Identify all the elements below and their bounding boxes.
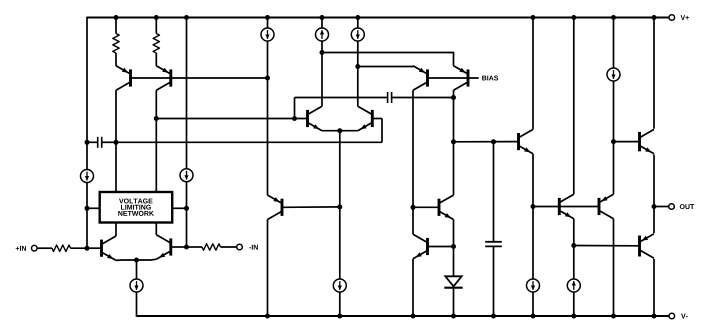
- wire: [87, 207, 100, 209]
- node: [652, 314, 657, 319]
- V+ rail wire: [87, 17, 669, 19]
- wire: [339, 292, 341, 316]
- wire: [339, 131, 341, 207]
- wire: [321, 18, 323, 29]
- capacitor C2: [388, 92, 454, 103]
- transistor Q2: [156, 66, 171, 90]
- node: [611, 314, 616, 319]
- wire: [137, 258, 157, 261]
- node: [355, 64, 360, 69]
- wire: [283, 206, 340, 208]
- wire: [533, 206, 598, 208]
- node: [85, 206, 90, 211]
- wire: [574, 245, 638, 247]
- transistor Q10: [439, 195, 454, 219]
- wire: [267, 78, 269, 195]
- node: [611, 15, 616, 20]
- wire: [653, 259, 655, 316]
- wire: [86, 183, 88, 249]
- node: [652, 204, 657, 209]
- node: [292, 116, 297, 121]
- node: [571, 314, 576, 319]
- wire: [613, 18, 615, 69]
- wire: [493, 142, 495, 242]
- transistor Q12: [519, 129, 534, 153]
- node: [154, 116, 159, 121]
- wire: [412, 259, 414, 316]
- transistor Q1: [116, 66, 131, 90]
- transistor Q9: [413, 66, 428, 90]
- resistor R2: [153, 18, 159, 66]
- current source I10: [607, 68, 620, 81]
- node: [611, 139, 616, 144]
- wire: [573, 219, 575, 279]
- transistor Q15: [640, 129, 655, 153]
- node: [184, 206, 189, 211]
- transistor Q14: [599, 194, 614, 218]
- node: [85, 140, 90, 145]
- wire: [412, 90, 414, 234]
- +IN terminal: [16, 245, 37, 251]
- node: [411, 314, 416, 319]
- wire: [453, 220, 455, 247]
- node: [531, 204, 536, 209]
- capacitor C1: [87, 137, 116, 148]
- wire: [86, 142, 88, 169]
- transistor Q5: [268, 195, 283, 219]
- wire: [614, 141, 639, 143]
- current source I1: [81, 170, 94, 183]
- node: [491, 314, 496, 319]
- node: [491, 139, 496, 144]
- wire: [172, 207, 186, 209]
- wire: [573, 18, 575, 195]
- wire: [116, 259, 136, 261]
- transistor Q8: [454, 66, 469, 90]
- transistor Q16: [640, 234, 655, 258]
- voltage limiting network: [100, 192, 173, 223]
- wire: [573, 292, 575, 316]
- wire: [136, 292, 138, 317]
- node: [652, 15, 657, 20]
- wire: [653, 155, 655, 207]
- wire: [357, 41, 359, 106]
- node: [184, 15, 189, 20]
- transistor Q7: [358, 106, 373, 130]
- wire: [653, 18, 655, 129]
- node: [320, 50, 325, 55]
- current source I8: [527, 279, 540, 292]
- node: [320, 15, 325, 20]
- node: [571, 243, 576, 248]
- wire: [267, 18, 269, 29]
- node: [451, 95, 456, 100]
- node: [114, 140, 119, 145]
- node: [265, 76, 270, 81]
- -IN terminal: [237, 244, 258, 250]
- resistor R3: [37, 245, 87, 251]
- wire: [171, 246, 187, 248]
- node: [85, 246, 90, 251]
- transistor Q4: [156, 235, 171, 259]
- current source I5: [333, 279, 346, 292]
- node: [531, 314, 536, 319]
- wire: [454, 141, 518, 143]
- wire: [428, 77, 479, 79]
- wire: [653, 207, 655, 234]
- current source I3: [130, 279, 143, 292]
- node: [531, 15, 536, 20]
- V+ terminal: [669, 15, 689, 21]
- diode D1: [444, 276, 462, 316]
- current source I6: [316, 28, 329, 41]
- resistor R4: [187, 244, 237, 250]
- transistor Q6: [308, 106, 323, 130]
- node: [184, 245, 189, 250]
- wire: [156, 118, 306, 120]
- wire: [358, 65, 413, 68]
- transistor Q13: [559, 194, 574, 218]
- wire: [87, 247, 101, 249]
- node: [134, 258, 139, 263]
- wire: [429, 246, 454, 248]
- wire: [613, 219, 615, 316]
- wire: [453, 247, 455, 277]
- current source I4: [261, 28, 274, 41]
- wire: [294, 98, 296, 119]
- wire: [86, 17, 88, 143]
- wire: [131, 77, 268, 79]
- node: [355, 15, 360, 20]
- node: [265, 314, 270, 319]
- wire: [532, 292, 534, 316]
- wire: [321, 41, 323, 106]
- wire: [322, 53, 454, 66]
- wire: [136, 260, 138, 279]
- node: [337, 204, 342, 209]
- wire: [322, 130, 358, 132]
- wire: [532, 18, 534, 130]
- wire: [186, 18, 188, 169]
- node: [451, 244, 456, 249]
- transistor Q3: [102, 236, 117, 260]
- wire: [613, 81, 615, 194]
- node: [265, 15, 270, 20]
- current source I7: [351, 28, 364, 41]
- wire: [532, 154, 534, 279]
- current source I2: [180, 169, 193, 182]
- node: [337, 128, 342, 133]
- wire: [186, 182, 188, 247]
- node: [154, 15, 159, 20]
- current source I9: [567, 279, 580, 292]
- wire: [115, 90, 117, 236]
- OUT terminal: [654, 204, 694, 210]
- node: [451, 314, 456, 319]
- wire: [453, 90, 455, 195]
- node: [451, 139, 456, 144]
- capacitor C3: [485, 242, 502, 316]
- wire: [372, 118, 382, 120]
- node: [571, 15, 576, 20]
- wire: [381, 119, 383, 143]
- V- terminal: [669, 313, 688, 319]
- wire: [413, 206, 438, 208]
- node: [337, 314, 342, 319]
- V- rail wire: [137, 315, 670, 317]
- wire: [267, 41, 269, 78]
- node: [114, 15, 119, 20]
- transistor Q11: [413, 234, 428, 258]
- wire: [267, 220, 269, 317]
- BIAS label: [482, 76, 498, 81]
- wire: [155, 90, 157, 235]
- wire: [357, 18, 359, 29]
- wire: [339, 207, 341, 279]
- node: [411, 205, 416, 210]
- wire: [295, 97, 388, 99]
- wire: [116, 141, 382, 143]
- resistor R1: [113, 18, 119, 66]
